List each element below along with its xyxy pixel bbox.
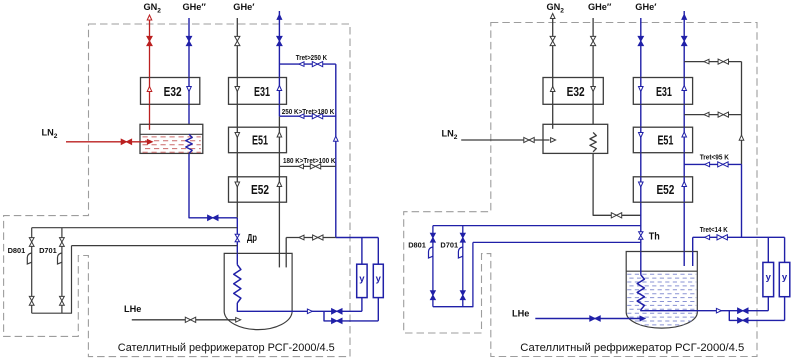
left wire: GHe'' blue supply line from top into LN2 bath (188, 18, 190, 134)
right GN2 valve (open black) (550, 36, 555, 45)
left wire: return line (blue upper part) from E31 top out (278, 11, 280, 116)
left compressor U2 box (373, 264, 383, 297)
svg-text:D701: D701 (39, 246, 57, 255)
right vessel liquid surface line (626, 270, 697, 272)
left branch1 valve (open blue) (312, 62, 322, 67)
right LN2 feed arrow (open black) (551, 138, 556, 143)
svg-text:Сателлитный рефрижератор РСГ-2: Сателлитный рефрижератор РСГ-2000/4.5 (118, 342, 335, 354)
right Tret<14K arrow (open blue) (705, 235, 710, 240)
right branch 2 wire (black) (684, 114, 741, 116)
left return outlet arrow (up, blue) (277, 14, 282, 19)
right heat exchanger E31 (633, 78, 692, 105)
right vessel coil (blue zigzag) (637, 275, 644, 310)
right branch Tret<95K wire (blue) (684, 163, 741, 165)
right wire: coil outlet to U boxes (641, 309, 769, 312)
right wire: GHe'' black supply from top into bath (592, 18, 594, 132)
svg-text:250 K>Tret>180 K: 250 K>Tret>180 K (282, 107, 335, 116)
svg-text:E52: E52 (656, 182, 674, 197)
left wire: black horizontal from riser junction to vessel bypass pipe (286, 237, 336, 239)
left wire: blue horizontal to compressor risers (336, 237, 379, 239)
left vessel coil (blue zigzag) (234, 265, 241, 303)
right LHe valve (filled blue) (590, 316, 600, 321)
svg-text:Сателлитный рефрижератор РСГ-2: Сателлитный рефрижератор РСГ-2000/4.5 (520, 342, 744, 354)
right wire: Tret<14K blue horizontal from vessel pipe to risers (693, 236, 785, 238)
right vessel bypass pipe end (692, 252, 694, 267)
left LN2 liquid surface line (140, 133, 203, 135)
left vessel coil feed wire (blue) (236, 253, 238, 264)
right Tret<14K valve (open blue) (717, 235, 727, 240)
left horizontal valve (open black) (313, 235, 323, 240)
left vessel vapor pipe (return line end) (278, 253, 280, 267)
svg-text:GHe′′: GHe′′ (183, 2, 207, 12)
svg-text:E31: E31 (656, 84, 672, 99)
left D701 upper valve (open black) (60, 238, 65, 247)
left branch3 valve (open black) (310, 164, 320, 169)
left wire: riser to U box 1 (361, 238, 363, 265)
svg-text:E51: E51 (252, 133, 268, 148)
left wire: LHe fill line (black) (132, 319, 236, 321)
svg-text:E52: E52 (251, 182, 269, 197)
left compressor U1 box (357, 264, 367, 297)
svg-text:Tret<95 K: Tret<95 K (700, 153, 730, 162)
svg-text:GHe′′: GHe′′ (588, 2, 612, 12)
right heat exchanger E52 (633, 177, 692, 202)
right wire: GHe'' down from bath over to throttle junction (593, 152, 641, 216)
left outlet valve 1 (filled blue) (332, 309, 342, 314)
left branch 2 wire 250K>Tret>180K (blue) (279, 115, 335, 117)
left bath coil (blue zigzag) redrawn (186, 134, 192, 153)
left GHe'' flow arrow inside E32 (down) (187, 87, 192, 92)
left D701 rupture-disc flag (58, 253, 62, 264)
right wire: LN2 feed line (black) (461, 139, 549, 141)
right relief assembly: header wire (blue) from D801/D701 to Th top (433, 225, 641, 227)
right wire: GN2 black riser from LN2 bath to top (552, 15, 554, 129)
right heat exchanger E51 (633, 127, 692, 153)
svg-text:E32: E32 (164, 84, 182, 99)
right LN2 bath vessel (empty) (543, 124, 608, 153)
svg-text:Tret>250 K: Tret>250 K (296, 53, 328, 62)
right Tret<95K valve (open blue) (718, 162, 728, 167)
right compressor U1 box (763, 262, 774, 296)
left GHe' valve (open black) (235, 36, 240, 45)
right vessel vapor pipe (return end) (683, 252, 685, 267)
left branch2 arrow (open blue) (299, 114, 304, 119)
right branch2 valve (open black) (718, 112, 728, 117)
left D801 lower valve (open black) (29, 296, 34, 305)
right outlet arrow (open blue) (716, 308, 721, 313)
svg-text:Th: Th (649, 231, 660, 242)
left return valve (filled blue) (277, 36, 282, 45)
left wire: coil outlet to U boxes (237, 303, 362, 311)
left wire: GHe'' blue segment inside E32 (188, 78, 190, 105)
right relief bottom header wire (blue) (433, 242, 473, 306)
right wire: GHe' blue supply from top through E31/E51/E52 to Th (640, 18, 642, 275)
right vessel (LHe dewar) outline (626, 252, 697, 329)
right wire: return line (blue) from vessel to top outlet (683, 11, 685, 266)
right D801 branch wire (blue) (432, 226, 434, 307)
svg-text:LHe: LHe (124, 304, 141, 314)
left relief assembly: lower bypass wire to below throttle (72, 245, 238, 247)
right branch1 arrow (open black) (704, 59, 709, 64)
right wire: blue vertical from Tret<95K down to Tret<14K junction (741, 164, 743, 237)
left GHe' flow arrow inside E51 (open, down) (235, 133, 240, 138)
right D701 branch wire (blue) (462, 226, 464, 307)
left wire: GHe' black segment inside boxes (236, 78, 238, 105)
right wire: LHe fill line (blue) (535, 318, 640, 320)
left outlet arrow (open blue) (307, 309, 312, 314)
left LN2 feed valve (filled red) (121, 139, 131, 144)
right wire: U1 bottom riser (767, 297, 769, 311)
right panel: main dashed enclosure border (404, 23, 757, 357)
left heat exchanger E52 (229, 177, 287, 202)
svg-text:у: у (782, 272, 788, 283)
left horizontal arrow (open black, left) (299, 235, 304, 240)
left relief assembly: header wire from D801/D701 to throttle top (32, 227, 238, 229)
right branch2 arrow (open black) (704, 112, 709, 117)
svg-text:D801: D801 (8, 246, 26, 255)
right LN2 feed valve (open black) (524, 137, 534, 142)
left return flow arrow inside E51 (open, up) (277, 132, 282, 137)
left GHe'' valve (filled blue) (186, 36, 191, 45)
right return outlet arrow (up blue) (682, 14, 687, 19)
left wire: GHe'' down from bath and over to throttle junction (189, 153, 237, 217)
left D701 lower valve (open black) (60, 296, 65, 305)
right branch 1 wire (black) (684, 61, 741, 63)
left wire: bypass pipe down into vessel (285, 238, 287, 268)
left LN2 liquid (red dashed fill) (143, 137, 201, 152)
right Tret<95K arrow (open blue) (705, 162, 710, 167)
svg-text:GHe′: GHe′ (635, 2, 657, 12)
left wire: GN2 red segment inside E32 (149, 78, 151, 105)
right branch1 valve (open black) (718, 59, 728, 64)
left throttle valve Dr (blue) (235, 234, 239, 242)
right outlet valve 2 (filled blue) (738, 318, 748, 323)
svg-text:GHe′: GHe′ (233, 2, 255, 12)
right compressor U2 box (779, 262, 790, 296)
right D801 rupture-disc flag (blue) (429, 247, 433, 258)
right wire: bypass pipe down into vessel (692, 237, 694, 266)
right GHe' valve (filled blue) (638, 36, 643, 45)
left heat exchanger E31 (229, 78, 287, 105)
right GHe'' valve (open black) (591, 36, 596, 45)
left wire: GN2 red riser from LN2 bath to top (149, 17, 151, 130)
svg-text:Tret<14 K: Tret<14 K (700, 225, 728, 234)
svg-text:180 K>Tret>100 K: 180 K>Tret>100 K (283, 156, 336, 165)
left outlet valve 2 (filled blue) (332, 318, 342, 323)
right wire: black branch vertical (right side) (741, 62, 743, 165)
left GHe'' coil in LN2 bath (blue zigzag) (186, 134, 192, 153)
svg-text:у: у (359, 274, 365, 285)
left D801 rupture-disc flag (27, 253, 31, 264)
right GN2 outlet arrow (open up) (550, 14, 555, 19)
left wire: U2 bottom riser (377, 298, 379, 321)
svg-text:E32: E32 (567, 84, 585, 99)
right vessel coil feed wire (blue) (640, 252, 642, 275)
left LHe valve (open black) (185, 317, 195, 322)
left GHe'' junction valve (filled blue) (208, 215, 218, 220)
left return flow arrow inside E52 (open, up) (277, 182, 282, 187)
left GN2 outlet arrow (open, up) (147, 15, 152, 20)
left GN2 valve V-GN2 (filled red) (147, 36, 152, 45)
left wire: blue line through throttle Dr into vessel coil (236, 218, 238, 265)
svg-text:LHe: LHe (512, 309, 529, 319)
right D701 upper valve (blue) (460, 233, 465, 242)
left D801 branch wire (31, 228, 33, 314)
right GHe'' coil in bath (black zigzag) (590, 132, 596, 151)
right heat exchanger E32 (543, 78, 603, 105)
right relief lower bypass wire (blue) (473, 241, 641, 243)
right throttle valve Th (blue) (639, 232, 643, 240)
left D701 branch wire (61, 228, 63, 314)
left LN2 bath vessel E-bath (140, 124, 203, 153)
left wire: U1 bottom riser (361, 298, 363, 312)
left panel: main dashed enclosure border (4, 24, 350, 357)
left wire: riser to U box 2 (377, 238, 379, 265)
left branch1 arrow (open blue, left) (299, 62, 304, 67)
right wire: riser to U box 1 (767, 237, 769, 262)
svg-text:E51: E51 (657, 133, 673, 148)
right LHe arrow (filled blue) (640, 316, 645, 321)
svg-text:у: у (376, 274, 382, 285)
right return valve (filled blue) (682, 36, 687, 45)
left GHe' flow arrow inside E31 (open, down) (235, 87, 240, 92)
right GHe'' junction valve (open black) (611, 213, 621, 218)
left wire: GN2 red stub inside bath (149, 124, 151, 130)
left wire: GHe' black supply line from top through E31/E51/E52 (236, 18, 238, 218)
right D801 upper valve (blue) (431, 233, 436, 242)
right D801 lower valve (blue) (431, 291, 436, 300)
svg-text:D701: D701 (440, 241, 458, 250)
right wire: U2 bottom riser (784, 297, 786, 321)
right wire: GN2 stub inside bath (552, 124, 554, 129)
left branch 3 wire 180K>Tret>100K (black) (279, 165, 335, 167)
left wire: LN2 feed line (red) (66, 141, 147, 143)
left GN2 flow arrow inside E32 (open, up) (147, 87, 152, 92)
left heat exchanger E32 (141, 78, 200, 105)
left wire: return segments inside boxes (278, 78, 280, 105)
left heat exchanger E51 (229, 127, 287, 153)
left wire: return line (black lower part) through E51/E52 into vessel (278, 116, 280, 267)
left riser up-flow arrow (open blue) (334, 136, 339, 141)
right riser up-flow arrow (open black) (739, 135, 744, 140)
right D701 lower valve (blue) (460, 291, 465, 300)
left wire: blue return-branch vertical (right side) (335, 64, 337, 237)
right GHe'' flow arrow inside E32 (open down) (591, 87, 596, 92)
left branch 1 wire Tret>250K (blue) (279, 63, 335, 65)
right outlet valve 1 (filled blue) (738, 308, 748, 313)
right wires redrawn inside boxes (552, 78, 554, 105)
svg-text:Др: Др (247, 233, 257, 244)
left wire: lower outlet branch (324, 311, 378, 321)
svg-text:E31: E31 (254, 84, 270, 99)
right bath coil (black zigzag) redrawn (590, 132, 596, 151)
svg-text:у: у (766, 272, 772, 283)
left branch2 valve (open blue) (312, 114, 322, 119)
left LN2 feed arrow (filled red) (147, 140, 152, 145)
right GN2 flow arrow inside E32 (open up) (550, 87, 555, 92)
svg-text:D801: D801 (408, 241, 426, 250)
left relief bottom header wire (32, 246, 72, 314)
left vessel (LHe dewar) outline (224, 253, 292, 329)
left vessel bypass pipe end (285, 253, 287, 267)
left return flow arrow inside E31 (open, up, blue) (277, 86, 282, 91)
left branch3 arrow (open black) (299, 164, 304, 169)
left GHe' flow arrow inside E52 (open, down) (235, 182, 240, 187)
right wire: riser to U box 2 (784, 237, 786, 262)
left LHe arrow (open black) (236, 318, 241, 323)
left D801 upper valve (open black) (29, 238, 34, 247)
right wire: lower outlet branch (729, 311, 784, 321)
right D701 rupture-disc flag (blue) (458, 247, 462, 258)
